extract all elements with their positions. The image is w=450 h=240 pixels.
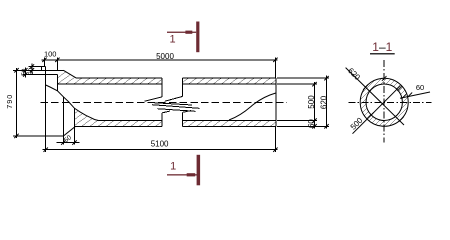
dimension labels xyxy=(5,50,329,149)
ticks 50 B xyxy=(30,64,34,68)
pipe outlines xyxy=(57,78,275,126)
tick 100 left xyxy=(42,58,46,62)
break closure bottom-right xyxy=(182,112,184,126)
top-right wall strip xyxy=(183,78,276,84)
ext small dim x=74.5 xyxy=(74,126,76,144)
top-left wall strip with bell wedge xyxy=(57,71,162,84)
right dims: ext y=84.2 xyxy=(277,83,317,85)
outer circle xyxy=(360,78,408,126)
zig long shallow A xyxy=(149,102,192,105)
ext line top left at x=44.5 xyxy=(44,57,46,66)
zig long shallow B xyxy=(152,105,199,109)
inlet curve xyxy=(46,85,99,121)
bottom flag line xyxy=(167,174,198,175)
top flag line xyxy=(167,32,196,33)
svg-text:60: 60 xyxy=(307,119,316,128)
circle horizontal centerline xyxy=(349,101,432,103)
bottom-right strip bottom edge xyxy=(183,125,276,127)
bottom-left strip bottom edge xyxy=(75,125,163,127)
dimension tick marks (45 deg slashes) xyxy=(14,58,328,152)
dim line bottom 5100 xyxy=(43,149,278,151)
svg-text:1: 1 xyxy=(170,34,176,46)
top-right strip top edge xyxy=(183,77,276,79)
bore bottom edge left xyxy=(99,120,162,122)
tick NW outer (620) xyxy=(363,85,368,90)
zig to bottom-right closure xyxy=(183,111,192,113)
zig from top-left closure xyxy=(145,97,163,101)
wall bottom xyxy=(46,135,64,137)
ext line y=74.5 seat to left xyxy=(23,74,46,76)
break closure bottom-left xyxy=(161,113,163,126)
diagonal SW-NE with 500 leader xyxy=(353,86,401,134)
tick 60 leader inner xyxy=(401,94,406,99)
bore top edge right xyxy=(183,83,276,85)
tick 60 leader outer xyxy=(408,93,413,98)
svg-text:1–1: 1–1 xyxy=(372,40,392,54)
svg-text:60: 60 xyxy=(416,83,424,92)
svg-text:500: 500 xyxy=(307,95,316,109)
title underline xyxy=(370,53,395,54)
cap left edge xyxy=(41,67,43,71)
bell top diagonal xyxy=(63,70,76,78)
bottom-left wall strip with bell wedge xyxy=(75,108,163,126)
ext small dim x=63.3 xyxy=(62,136,64,145)
tick 5000 right xyxy=(273,58,277,62)
zig long shallow C xyxy=(157,109,195,112)
ticks small 50 xyxy=(61,140,65,144)
svg-text:50: 50 xyxy=(28,67,35,75)
right dims: ext y=78.2 xyxy=(277,77,329,79)
zig to bottom-left closure xyxy=(162,111,170,113)
dim line 500/60 at x=314.5 xyxy=(314,82,316,129)
tick SE diag end xyxy=(399,117,404,122)
tick 5100 right xyxy=(273,148,277,152)
break zigzag lines xyxy=(145,96,200,113)
dim line 50 A at x=25.3 xyxy=(24,68,26,78)
tick NE diag end xyxy=(397,86,402,91)
svg-text:5100: 5100 xyxy=(151,139,169,148)
ext line y=70.3 to left xyxy=(13,69,42,71)
dim line 620 at x=326.5 xyxy=(326,76,328,129)
bottom flag thick block xyxy=(187,173,196,176)
60 leader line xyxy=(400,92,430,98)
tick top of circle xyxy=(382,76,387,81)
wall top xyxy=(42,69,64,71)
tick 5100 left xyxy=(44,148,48,152)
wall seat ledge xyxy=(46,74,58,76)
tick 790 top xyxy=(14,68,18,72)
bottom-right wall strip xyxy=(183,121,276,127)
zig from top-right closure xyxy=(165,96,183,101)
bell bottom vertical xyxy=(74,108,76,126)
top flag bar xyxy=(196,22,199,53)
pipe centerline dashed xyxy=(41,101,288,103)
ext bottom left xyxy=(45,137,47,152)
svg-text:620: 620 xyxy=(320,95,329,109)
ext bottom right xyxy=(274,127,276,152)
ext line top at x=57.4 xyxy=(56,57,58,70)
bottom step diagonal xyxy=(63,126,75,136)
cap top xyxy=(42,66,46,68)
pipe right end xyxy=(275,78,277,126)
outlet drawdown S-curve xyxy=(229,93,276,120)
section tick marks xyxy=(363,76,412,122)
dim line top (100 and 5000) xyxy=(42,59,278,61)
dim line 50 B at x=31.9 xyxy=(31,64,33,74)
bottom flag bar xyxy=(197,155,201,186)
top-left strip top edge xyxy=(77,77,163,79)
top flag thick block xyxy=(185,31,192,34)
bore top edge left xyxy=(57,83,162,85)
tick 100/5000 shared xyxy=(55,58,59,62)
ext line y=66.5 cap top to left xyxy=(29,66,42,68)
tick SW inner (500) xyxy=(369,113,374,118)
diagonal NW-SE with 620 leader xyxy=(346,68,404,125)
right dims: ext y=126.3 xyxy=(277,125,329,127)
wall inner face xyxy=(56,75,58,91)
right dims: ext y=120.6 xyxy=(277,120,317,122)
ext line y=135.9 to left xyxy=(13,135,46,137)
break closure top-left xyxy=(161,78,163,97)
ticks 620 line xyxy=(324,76,328,80)
tick 790 bottom xyxy=(14,134,18,138)
circle vertical centerline xyxy=(383,60,385,143)
bore bottom edge right xyxy=(183,120,276,122)
mouth vertical xyxy=(62,97,64,136)
svg-text:790: 790 xyxy=(5,94,14,109)
small dim line 50 under wall xyxy=(57,142,80,144)
wall outer face xyxy=(45,67,47,137)
ticks 50 A xyxy=(23,68,27,72)
svg-text:100: 100 xyxy=(44,50,57,59)
ext line top right at x=275.4 xyxy=(274,57,276,78)
svg-text:50: 50 xyxy=(21,68,28,76)
ring hatch xyxy=(360,78,408,126)
break closure top-right xyxy=(182,78,184,96)
svg-text:1: 1 xyxy=(170,160,176,172)
ticks 500/60 line xyxy=(312,82,316,86)
inner circle xyxy=(366,84,402,120)
svg-text:5000: 5000 xyxy=(156,52,174,61)
dim line left 790 xyxy=(16,68,18,138)
